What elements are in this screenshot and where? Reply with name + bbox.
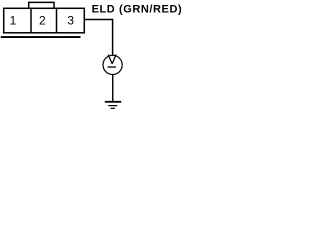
voltmeter V1 circle [103,55,122,74]
connector base line [1,36,81,38]
wire voltmeter to ground [112,75,114,102]
ground bar 2 [108,105,117,106]
voltmeter underline [108,66,117,67]
svg-text:2: 2 [39,14,46,28]
voltmeter V letter [108,55,116,64]
svg-text:1: 1 [10,14,17,28]
svg-text:3: 3 [67,14,74,28]
pin divider 1/2 [30,8,32,33]
pin divider 2/3 [56,8,58,33]
wire ELD from pin 3 to voltmeter [84,20,112,56]
ground bar 3 [111,108,116,109]
ground bar 1 [105,101,121,103]
svg-text:ELD (GRN/RED): ELD (GRN/RED) [92,4,182,16]
connector body outline [4,8,85,33]
connector tab [29,2,54,8]
